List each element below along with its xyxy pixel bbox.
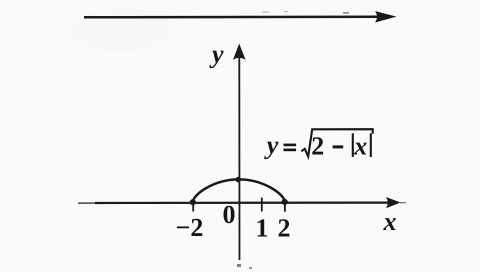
svg-text:x: x (383, 207, 397, 236)
svg-text:x: x (353, 132, 367, 161)
top dot (0, sqrt2) (236, 177, 242, 183)
equation y = sqrt(2 - |x|) (264, 129, 373, 160)
endpoint dot (2,0) (282, 199, 288, 205)
svg-text:−2: −2 (176, 213, 204, 242)
svg-text:1: 1 (256, 213, 269, 242)
endpoint dot (-2,0) (190, 199, 196, 205)
x-axis tip dash (400, 202, 406, 204)
top separator arrow (84, 11, 397, 23)
svg-text:y: y (209, 40, 224, 69)
equation equals sign (284, 144, 297, 147)
top arrow head (375, 11, 397, 23)
x-axis (78, 197, 406, 208)
radical sign (301, 129, 372, 156)
top arrow shaft (84, 16, 379, 19)
tick x=-2 (192, 204, 194, 212)
scan noise specks (237, 11, 349, 269)
svg-text:2: 2 (311, 131, 324, 160)
absolute value left bar (352, 133, 354, 157)
y-axis arrowhead (233, 44, 246, 61)
svg-text:y: y (264, 130, 279, 159)
x-axis line (95, 202, 388, 205)
tick x=2 (284, 204, 286, 212)
svg-text:0: 0 (223, 200, 236, 229)
y-axis line (238, 57, 240, 260)
equation minus sign (333, 145, 344, 148)
svg-text:2: 2 (278, 213, 291, 242)
tick x=1 (261, 198, 263, 212)
y-axis (233, 44, 246, 261)
x-axis faint lead-in segment (78, 202, 96, 204)
x-axis arrowhead (386, 197, 401, 208)
absolute value right bar (370, 133, 372, 157)
curve y = sqrt(2-|x|) (193, 179, 285, 202)
